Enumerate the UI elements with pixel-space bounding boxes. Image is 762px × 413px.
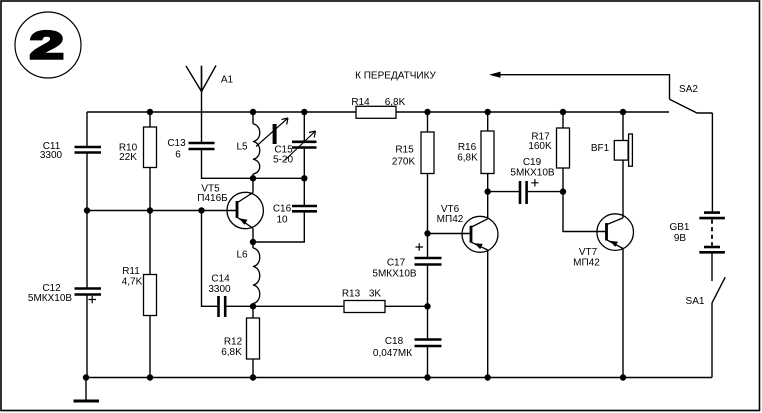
svg-text:6: 6 [175,150,181,161]
wire VT6 base [428,233,471,235]
wire SA1 to bottom rail [711,303,713,378]
wire VT7 base [563,192,606,232]
wire R10 branch [149,112,151,211]
VT7 base bar [605,223,608,241]
transmitter arrow head [489,72,501,78]
transistor VT6 circle [462,216,498,252]
svg-text:6,8K: 6,8K [385,97,406,108]
svg-text:L5: L5 [236,141,248,152]
transistor VT7 circle [597,214,634,251]
svg-text:C13: C13 [167,138,186,149]
wire C17 branch [427,234,429,307]
VT7 emitter diagonal [607,240,623,249]
wire BF1 top [622,112,624,141]
svg-text:SA2: SA2 [679,84,698,95]
wire left vertical upper (rail to C11) [86,112,88,147]
svg-text:3K: 3K [369,288,382,299]
wire SA2 to battery [711,113,713,212]
svg-text:МП42: МП42 [573,257,600,268]
svg-text:К ПЕРЕДАТЧИКУ: К ПЕРЕДАТЧИКУ [355,71,436,82]
resistor R12 [247,318,260,359]
svg-text:R15: R15 [395,144,414,155]
svg-text:C17: C17 [387,258,406,269]
svg-text:160K: 160K [528,141,552,152]
figure number circle [15,12,81,78]
resistor R10 [144,127,157,168]
inductor L5 [253,124,260,174]
wire L6 bottom stub [252,304,254,307]
svg-text:C19: C19 [523,157,542,168]
svg-text:270K: 270K [392,157,416,168]
wire left vertical bottom (C12 to bottom rail) [86,295,88,378]
wire R16 branch [487,112,489,192]
wire L5 bottom stub [252,174,254,178]
capacitor C12 [75,289,102,295]
VT7 emitter arrow [610,241,618,247]
svg-text:МП42: МП42 [437,214,464,225]
wire top rail right segment [396,111,669,113]
wire R15 branch [427,112,429,234]
svg-text:R13: R13 [342,288,361,299]
VT5 base bar [236,201,239,218]
VT5 emitter arrow [239,218,247,225]
wire L5 top stub [252,112,254,124]
VT6 emitter diagonal [472,242,488,250]
transistor VT5 circle [227,192,263,228]
capacitor C11 [75,147,102,153]
VT6 emitter arrow [475,243,483,249]
wire BF1 to VT7 collector [622,160,624,218]
wire C15 branch lower [303,148,305,179]
wire VT5 emitter [252,228,254,242]
wire VT5 collector [252,178,254,192]
wire C19 left [488,191,519,193]
wire VT7 emitter [622,249,624,378]
svg-text:R14: R14 [351,97,370,108]
C19 polarity plus [531,179,538,186]
C15 adjust arrow [285,131,316,161]
VT5 collector diagonal [238,193,254,203]
svg-text:П416Б: П416Б [197,193,228,204]
svg-text:A1: A1 [221,75,234,86]
earphone BF1 body [614,141,628,161]
wire R13 left [253,305,344,307]
battery GB1 dashed link [711,220,713,246]
wire C16 branch upper [303,178,305,205]
resistor R14 [356,106,396,118]
earphone BF1 membrane bar [629,134,633,166]
svg-text:C16: C16 [273,203,292,214]
wire C19 right [527,191,563,193]
svg-text:4,7K: 4,7K [122,276,143,287]
capacitor C16 [292,206,317,211]
wire transmitter line [499,75,670,100]
wire battery to SA1 [711,254,713,282]
wire R13 right [385,305,428,307]
ground stub [85,378,87,400]
svg-text:2: 2 [30,23,64,67]
wire R17 branch [562,112,564,192]
svg-text:SA1: SA1 [686,296,705,307]
resistor R17 [557,128,570,168]
wire C14 branch vertical [202,211,218,307]
inductor L6 [253,248,260,304]
wire VT6 collector [487,192,489,219]
ground symbol bar [74,400,100,403]
resistor R13 [344,301,385,313]
battery GB1 top cell long plate [699,217,725,220]
L5 core bar [273,124,277,144]
capacitor C19 [520,181,527,204]
capacitor C13 [189,143,215,149]
wire C16 branch lower [253,212,304,242]
VT5 emitter diagonal [238,218,254,229]
VT6 base bar [470,226,473,243]
VT7 collector diagonal [607,218,623,225]
svg-text:L6: L6 [236,250,248,261]
battery GB1 bottom cell long plate [699,251,725,254]
junction dots [147,109,153,115]
svg-text:C18: C18 [385,336,404,347]
battery GB1 bottom cell short plate [704,246,720,249]
antenna lead [201,66,203,143]
wire top rail left segment [87,111,356,113]
svg-text:VT7: VT7 [579,247,598,258]
wire left vertical lower (node to C12) [86,211,88,289]
svg-text:6,8K: 6,8K [457,153,478,164]
resistor R16 [481,131,494,174]
resistor R15 [421,132,434,174]
svg-text:5МКХ10В: 5МКХ10В [28,293,73,304]
svg-text:5МКХ10В: 5МКХ10В [510,167,555,178]
svg-text:3300: 3300 [208,284,231,295]
wire L6 top stub [252,242,254,248]
battery GB1 top cell short plate [704,211,720,214]
svg-text:5-20: 5-20 [273,154,293,165]
wire C15 branch upper [303,112,305,141]
wire C13 to tank [202,149,254,178]
svg-text:R12: R12 [224,337,243,348]
wire VT6 emitter [487,250,489,378]
wire C18 branch [427,306,429,377]
wire R11 branch [149,211,151,378]
capacitor C17 [415,258,442,265]
wire left vertical middle (C11 to node) [86,153,88,211]
wire R12 branch [252,306,254,377]
wire tank bottom rail [253,177,304,179]
L5 adjust arrow [256,118,288,147]
switch SA2 lever [670,99,713,113]
VT6 collector diagonal [472,219,488,227]
svg-text:3300: 3300 [40,150,63,161]
wire bottom rail [86,377,712,379]
svg-text:10: 10 [276,214,288,225]
svg-text:5МКХ10В: 5МКХ10В [372,268,417,279]
wire C14 to L6 node [226,305,253,307]
wire base line VT5 [87,210,236,212]
resistor R11 [144,275,157,316]
antenna A1 [186,66,216,92]
C17 polarity plus [416,243,424,250]
svg-text:BF1: BF1 [591,143,610,154]
svg-text:22K: 22K [119,152,137,163]
svg-text:R16: R16 [458,142,477,153]
capacitor C14 [219,296,226,317]
svg-text:9В: 9В [674,233,687,244]
capacitor C15 [292,142,317,148]
C12 polarity plus [89,296,97,303]
svg-text:GB1: GB1 [669,222,689,233]
svg-text:6,8K: 6,8K [221,347,242,358]
switch SA1 lever [712,277,725,303]
svg-text:0,047МК: 0,047МК [373,348,412,359]
svg-text:C14: C14 [211,273,230,284]
capacitor C18 [415,340,442,347]
